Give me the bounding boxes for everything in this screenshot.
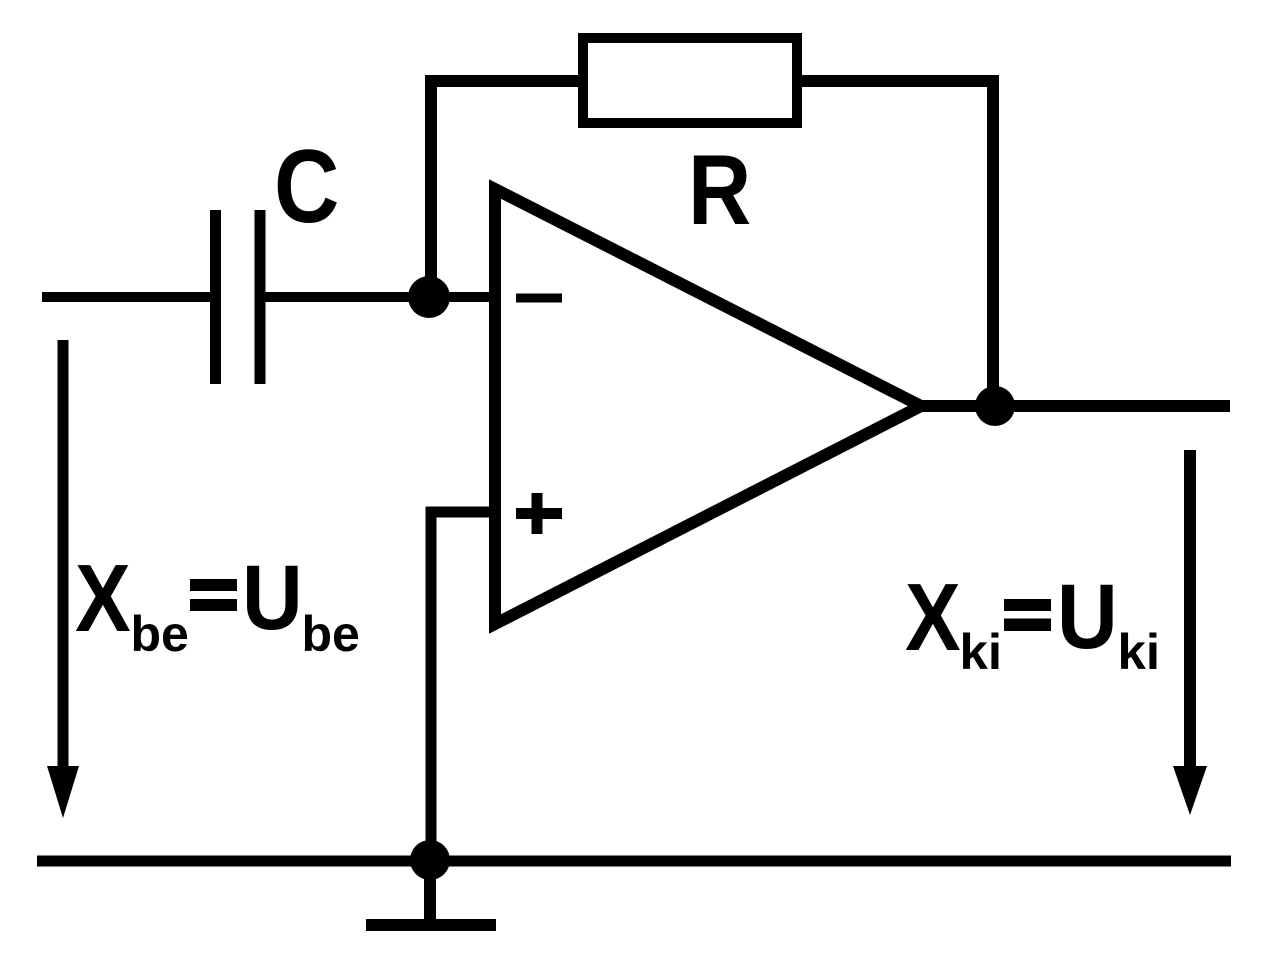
wire noninverting input: [431, 512, 492, 861]
ground: [366, 860, 496, 925]
node output junction: [975, 386, 1015, 426]
arrow output voltage: [1173, 450, 1207, 815]
arrow input voltage: [47, 340, 79, 818]
svg-text:U: U: [242, 545, 303, 648]
wire feedback riser right: [802, 81, 993, 406]
pin minus: [516, 294, 562, 303]
svg-text:R: R: [688, 134, 751, 245]
wire output: [921, 400, 1230, 412]
svg-text:C: C: [274, 128, 339, 244]
svg-text:X: X: [75, 546, 131, 653]
wire bottom rail: [37, 856, 1231, 867]
svg-text:ki: ki: [960, 623, 1003, 679]
capacitor C left plate: [210, 210, 221, 384]
svg-text:U: U: [1057, 564, 1118, 667]
wire input left segment: [42, 292, 211, 302]
svg-text:be: be: [131, 606, 189, 662]
svg-text:ki: ki: [1118, 623, 1161, 679]
node inverting input junction: [408, 276, 450, 318]
op-amp U1: [495, 189, 921, 624]
label Xbe=Ube: [75, 545, 360, 662]
wire feedback riser left: [431, 81, 578, 297]
svg-text:X: X: [905, 565, 961, 672]
capacitor C right plate: [255, 210, 266, 384]
wire capacitor to inverting node: [265, 292, 492, 302]
label Xki=Uki: [905, 564, 1160, 679]
svg-text:be: be: [302, 606, 360, 662]
resistor R: [583, 38, 797, 123]
pin plus: [516, 493, 562, 534]
node ground junction: [410, 840, 450, 880]
